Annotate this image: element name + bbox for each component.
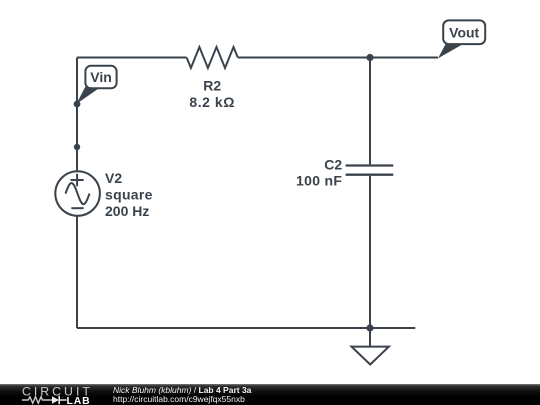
ground symbol: [352, 347, 389, 365]
node dot (Vin tap): [74, 101, 81, 108]
wire: top horizontal right of R2: [238, 57, 438, 59]
Vin flag box: [85, 66, 116, 89]
ground stub wire: [369, 328, 371, 346]
node dot above V2: [74, 144, 80, 150]
svg-text:R2: R2: [203, 78, 221, 94]
svg-text:100 nF: 100 nF: [296, 172, 342, 188]
logo resistor squiggle: [22, 397, 52, 403]
svg-text:LAB: LAB: [67, 396, 91, 405]
svg-text:200 Hz: 200 Hz: [105, 203, 149, 219]
svg-text:square: square: [105, 187, 153, 203]
footer line 1: [113, 386, 251, 395]
CircuitLab logo: [0, 384, 100, 405]
wire: capacitor branch upper: [369, 58, 371, 165]
footer bar: [0, 384, 540, 405]
svg-text:C2: C2: [324, 157, 342, 173]
resistor R2: [187, 47, 238, 68]
voltage source V2 circle: [55, 171, 100, 216]
logo diode: [52, 396, 59, 404]
V2 plus sign: [71, 174, 84, 186]
junction dot bottom (ground): [366, 324, 373, 331]
wire: capacitor branch lower: [369, 176, 371, 328]
wire: top-left vertical (Vin branch): [76, 58, 78, 172]
Vout flag tail: [438, 41, 464, 59]
Vin flag tail: [76, 86, 99, 104]
svg-text:8.2 kΩ: 8.2 kΩ: [189, 94, 235, 110]
svg-text:Vin: Vin: [90, 69, 112, 85]
Vout flag box: [443, 20, 485, 44]
footer line 2: [113, 395, 245, 404]
junction dot top (C2 tap): [366, 54, 373, 61]
wire: left vertical below V2: [76, 216, 78, 328]
wire: bottom horizontal: [77, 327, 415, 329]
svg-text:Vout: Vout: [449, 24, 479, 40]
capacitor C2 plates: [346, 166, 394, 175]
svg-text:V2: V2: [105, 170, 122, 186]
V2 sine waveform: [66, 183, 90, 204]
V2 minus sign: [71, 207, 83, 209]
wire: top horizontal left of R2: [77, 57, 187, 59]
